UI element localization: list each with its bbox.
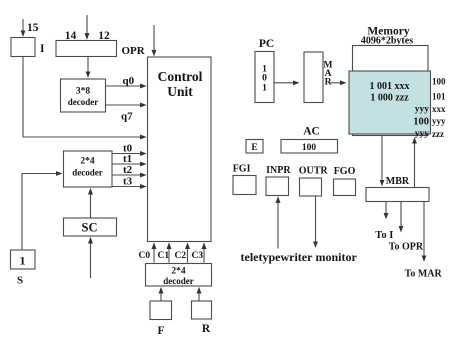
wire: F to decoder [160,288,162,301]
svg-text:F: F [157,325,164,337]
svg-text:15: 15 [27,22,39,34]
wire: MBR to MAR [423,202,425,262]
svg-text:100: 100 [432,77,446,87]
svg-text:2*4: 2*4 [80,157,95,167]
wire: teletypewriter to INPR [277,197,279,248]
svg-text:2*4: 2*4 [171,267,186,277]
decoder 2*4 (left) box [64,151,113,187]
svg-text:INPR: INPR [266,165,291,176]
register AC box [281,140,338,154]
svg-text:t3: t3 [123,176,133,188]
svg-text:Unit: Unit [167,84,193,99]
memory contents box (teal) [349,71,431,134]
svg-text:decoder: decoder [163,276,194,286]
svg-text:1: 1 [262,84,267,94]
svg-text:OUTR: OUTR [299,166,329,177]
svg-text:q7: q7 [121,111,133,123]
svg-text:teletypewriter: teletypewriter [241,250,314,264]
wire: OUTR to monitor [315,196,317,247]
svg-text:To I: To I [375,230,393,241]
wire: arrow into register I [22,19,24,36]
wire: R to decoder [198,288,200,301]
wire: arrow into OPR [86,15,88,39]
svg-text:FGO: FGO [334,166,356,177]
decoder 3*8 box [61,79,106,112]
svg-text:decoder: decoder [72,168,103,178]
svg-text:monitor: monitor [316,250,358,264]
register PC box [255,52,274,103]
svg-text:xxx: xxx [432,104,446,114]
svg-text:yyy: yyy [432,116,446,126]
register MBR box [366,188,429,202]
svg-text:0: 0 [262,74,267,84]
svg-text:To OPR: To OPR [389,242,424,253]
wire: MBR to I [385,202,387,219]
wire t0 [112,153,146,155]
wire t1 [112,163,146,165]
wire q7 [106,104,146,106]
svg-text:PC: PC [259,38,274,50]
svg-text:C3: C3 [192,251,204,261]
Control Unit box [148,57,212,242]
wire: SC to decoder [90,189,92,218]
svg-text:To MAR: To MAR [405,269,443,280]
register SC box [64,218,117,236]
wire: Memory to MBR [381,136,383,186]
flipflop FGO box [334,179,356,196]
wire: arrow into Control Unit top [153,25,155,56]
svg-text:t2: t2 [123,164,133,176]
svg-text:1 001 xxx: 1 001 xxx [370,81,410,92]
svg-text:C1: C1 [158,251,170,261]
svg-text:101: 101 [432,92,446,102]
svg-text:100: 100 [413,117,429,128]
decoder 2*4 (bottom) box [146,264,212,287]
svg-text:yyy: yyy [415,105,430,115]
wire C0 [153,243,155,262]
svg-text:I: I [40,43,45,55]
register OPR box [56,41,117,57]
wire: I to Control Unit [23,57,146,138]
svg-text:OPR: OPR [122,45,146,57]
svg-text:3*8: 3*8 [76,87,91,97]
svg-text:q0: q0 [123,75,135,87]
wire: MBR to OPR [400,202,402,232]
register INPR box [266,177,289,196]
svg-text:MBR: MBR [386,176,410,187]
flipflop R box [192,301,212,319]
register I box [11,38,35,57]
flipflop FGI box [233,176,256,195]
svg-text:yyy: yyy [415,129,430,139]
memory outer box [353,46,429,136]
register MAR box [304,52,323,103]
wire C2 [187,243,189,262]
register OUTR box [300,178,322,196]
wire: MBR to Memory [414,138,416,188]
wire t3 [112,186,146,188]
svg-text:C0: C0 [139,251,151,261]
wire: PC to MAR [274,82,299,84]
svg-text:FGI: FGI [233,164,251,175]
svg-text:decoder: decoder [68,97,99,107]
svg-text:1 000 zzz: 1 000 zzz [370,92,409,103]
svg-text:AC: AC [303,126,320,138]
svg-text:Control: Control [158,69,203,84]
wire C3 [203,243,205,262]
svg-text:1: 1 [20,254,26,268]
wire: OPR to 3*8 decoder [87,57,89,78]
wire t2 [112,174,146,176]
svg-text:zzz: zzz [432,129,444,139]
svg-text:S: S [17,275,23,287]
flipflop E box [246,140,263,154]
svg-text:SC: SC [82,221,98,235]
svg-text:R: R [202,323,211,335]
wire C1 [168,243,170,262]
svg-text:C2: C2 [175,251,187,261]
svg-text:100: 100 [302,143,317,153]
wire: MAR to Memory [330,82,346,84]
constant 1 box [11,250,36,269]
wire: arrow into SC [90,238,92,278]
wire q0 [106,85,146,87]
svg-text:E: E [251,143,257,153]
flipflop F box [150,301,172,320]
wire: S to 2*4 decoder [22,174,62,251]
